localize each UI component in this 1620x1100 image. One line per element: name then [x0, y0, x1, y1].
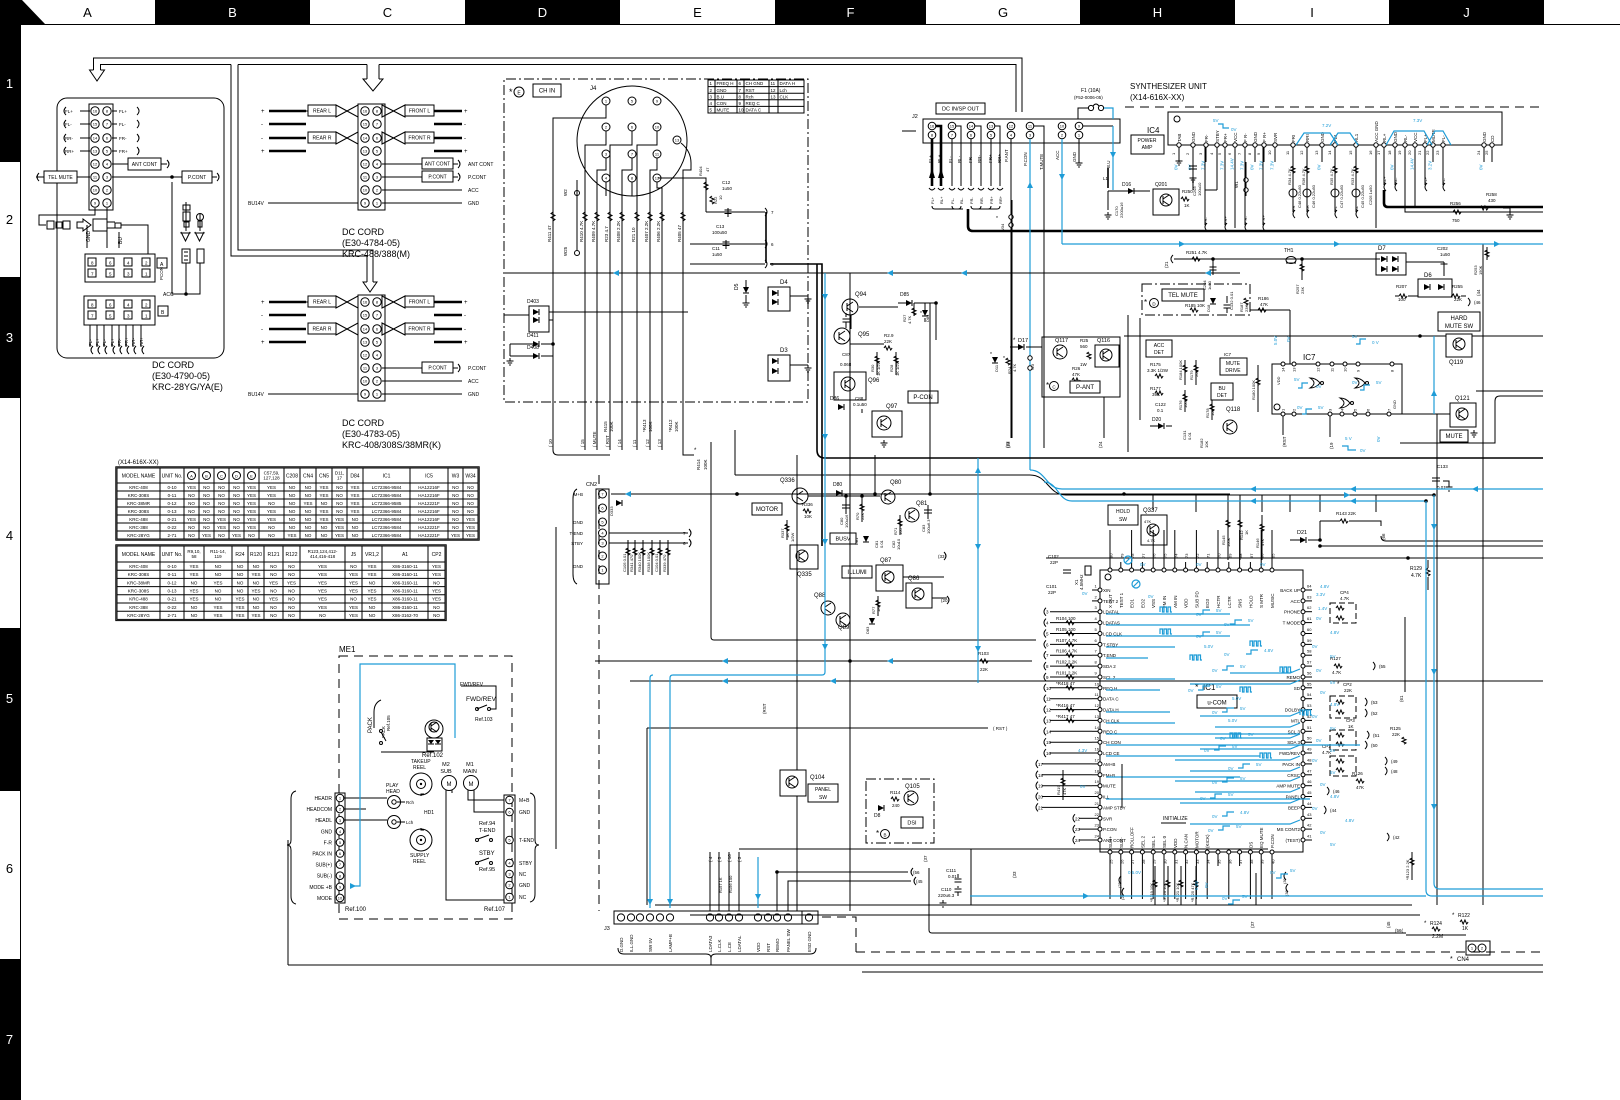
svg-text:LAMP+B: LAMP+B: [668, 934, 673, 952]
svg-text:16: 16: [1046, 751, 1052, 756]
svg-text:16: 16: [1368, 150, 1373, 155]
brace under J3: [618, 948, 816, 958]
C104: [659, 540, 661, 575]
svg-text:GND: GND: [1482, 131, 1487, 142]
svg-text:(E30-4790-05): (E30-4790-05): [152, 371, 210, 381]
svg-text:Q116: Q116: [1097, 338, 1110, 344]
svg-text:79: 79: [1119, 553, 1124, 558]
svg-text:REAR L: REAR L: [313, 300, 331, 306]
P-CON label: [908, 391, 938, 403]
resistor R406: [661, 196, 663, 450]
svg-text:58: 58: [1307, 649, 1312, 654]
svg-text:(44: (44: [1330, 808, 1337, 813]
svg-text:M2: M2: [442, 762, 450, 768]
svg-text:63: 63: [1307, 594, 1312, 599]
svg-text:W1: W1: [1234, 181, 1239, 188]
svg-text:LC72366-9584: LC72366-9584: [372, 533, 402, 538]
P.CONT label: [112, 176, 182, 178]
svg-text:PANEL: PANEL: [815, 787, 831, 793]
J4 pin lookup table: [708, 80, 804, 113]
diode D83: [869, 618, 875, 624]
svg-text:NO: NO: [321, 501, 328, 506]
pin 9/1: [91, 199, 99, 207]
pin IC1-13 CH CLK: [1098, 718, 1102, 722]
svg-text:20: 20: [1038, 795, 1044, 800]
wire y475: [735, 474, 1030, 476]
svg-text:R105 100: R105 100: [1056, 627, 1076, 632]
pin ME1-9 MODE +B: [336, 883, 344, 891]
svg-text:75: 75: [1163, 553, 1168, 558]
svg-text:C105 0.01: C105 0.01: [622, 553, 627, 572]
svg-text:12: 12: [363, 353, 368, 358]
svg-text:220u6.3: 220u6.3: [938, 893, 955, 898]
svg-text:0V: 0V: [1196, 634, 1202, 639]
capacitor C48: [1289, 189, 1297, 197]
pin IC4-12 RRI: [1305, 143, 1309, 147]
svg-text:NO: NO: [191, 580, 198, 585]
svg-text:R104 100: R104 100: [1056, 616, 1076, 621]
svg-text:BEEP: BEEP: [1288, 805, 1300, 810]
svg-text:1.4V: 1.4V: [1318, 606, 1327, 611]
svg-text:10: 10: [338, 896, 343, 901]
DSI label: [901, 817, 923, 828]
svg-text:0V: 0V: [1222, 896, 1228, 901]
svg-text:25: 25: [1484, 150, 1489, 155]
svg-text:FR-: FR-: [1204, 134, 1209, 142]
svg-text:R23 4.7: R23 4.7: [604, 226, 609, 242]
svg-text:(53: (53: [1371, 700, 1378, 705]
svg-text:YES: YES: [318, 597, 327, 602]
cyan waveform pulses: [1160, 607, 1172, 612]
connector CN4: [1466, 941, 1490, 955]
svg-text:22: 22: [1425, 150, 1430, 155]
svg-text:A: A: [83, 5, 92, 20]
HARD MUTE SW: [1438, 312, 1480, 331]
node 4: [1044, 619, 1046, 627]
svg-text:C133: C133: [1437, 464, 1448, 469]
svg-text:PACK IN: PACK IN: [1282, 762, 1300, 767]
svg-text:*R417 47: *R417 47: [1056, 714, 1075, 719]
pin IC1-74 AM IN: [1173, 568, 1177, 572]
svg-text:RST: RST: [746, 88, 755, 93]
resistor R409: [596, 196, 598, 450]
svg-text:18: 18: [1387, 150, 1392, 155]
pin IC1-64 BACK UP: [1301, 588, 1305, 592]
svg-text:EO2: EO2: [1140, 598, 1145, 608]
svg-text:Ref.94: Ref.94: [479, 821, 495, 827]
svg-text:FWD/REV: FWD/REV: [460, 682, 484, 688]
svg-text:P.ANT: P.ANT: [1004, 149, 1009, 162]
svg-text:NO: NO: [203, 509, 210, 514]
svg-text:B: B: [883, 833, 886, 838]
svg-text:CP4: CP4: [1340, 590, 1349, 595]
svg-text:1K 1/2W: 1K 1/2W: [895, 360, 900, 376]
svg-text:YES: YES: [432, 589, 441, 594]
svg-text:10: 10: [1343, 367, 1348, 372]
svg-text:BUSV: BUSV: [836, 537, 851, 543]
svg-text:43: 43: [1307, 812, 1312, 817]
pin IC1-3 LDATAL: [1098, 610, 1102, 614]
svg-text:R120: R120: [250, 552, 262, 558]
svg-text:13: 13: [989, 124, 994, 129]
pin J4-13: [673, 136, 681, 144]
svg-text:24: 24: [1095, 834, 1100, 839]
svg-text:FL+: FL+: [930, 196, 935, 204]
node FR+ right: [112, 150, 117, 152]
wire y661: [595, 660, 1032, 662]
svg-text:Ref.95: Ref.95: [479, 867, 495, 873]
svg-text:F R+: F R+: [1261, 215, 1266, 224]
svg-text:GND: GND: [573, 520, 584, 525]
bottom area wires: [646, 728, 648, 905]
pin ME1-10 MODE: [336, 894, 344, 902]
wire FL-: [89, 325, 91, 347]
svg-text:(20: (20: [941, 598, 948, 603]
svg-text:LC72366-9584: LC72366-9584: [372, 517, 402, 522]
op-amp IC4 body: [1168, 112, 1502, 145]
svg-text:R121: R121: [268, 552, 280, 558]
svg-text:7.2V: 7.2V: [1322, 123, 1331, 128]
svg-text:16: 16: [363, 109, 368, 114]
svg-text:750: 750: [1452, 218, 1460, 223]
svg-text:(55: (55: [1379, 664, 1386, 669]
svg-text:1u50: 1u50: [1440, 252, 1451, 257]
svg-text:D86: D86: [830, 396, 839, 402]
svg-text:0-21: 0-21: [167, 597, 177, 602]
svg-text:22K: 22K: [1392, 732, 1400, 737]
pin J2-2: [1058, 131, 1066, 139]
svg-text:127,128: 127,128: [263, 476, 280, 481]
pin IC1-43: [1301, 816, 1305, 820]
wire pin9 loop to plug: [39, 208, 95, 225]
svg-text:(F52-0006-05): (F52-0006-05): [1074, 95, 1103, 100]
svg-text:0V: 0V: [1224, 652, 1230, 657]
pin J3-0: [617, 914, 624, 921]
svg-text:R24: R24: [235, 552, 244, 558]
svg-text:51: 51: [1307, 725, 1312, 730]
svg-text:14: 14: [1095, 725, 1100, 730]
svg-text:5V: 5V: [1330, 748, 1336, 753]
svg-text:FL-: FL-: [88, 339, 93, 346]
R404 47 / R22 10: [658, 178, 706, 212]
resistor R105: [1066, 631, 1074, 635]
svg-text:HOLD: HOLD: [1116, 509, 1130, 515]
svg-text:Q117: Q117: [1055, 338, 1068, 344]
nodes 33 20: [944, 552, 946, 560]
wire y558: [1046, 557, 1543, 559]
diode D333: [616, 500, 622, 506]
svg-text:(X14-616X-XX): (X14-616X-XX): [118, 460, 159, 466]
svg-text:1K 1/2W: 1K 1/2W: [876, 360, 881, 376]
wire RR+: [140, 325, 142, 347]
svg-text:DC IN/SP OUT: DC IN/SP OUT: [942, 107, 980, 113]
svg-text:GND: GND: [1392, 400, 1397, 409]
svg-text:5V: 5V: [1248, 618, 1254, 623]
svg-text:NO: NO: [237, 564, 244, 569]
svg-text:0-13: 0-13: [167, 589, 177, 594]
svg-text:NO: NO: [350, 597, 357, 602]
svg-text:D83: D83: [865, 626, 870, 634]
wires pcon: [859, 306, 898, 308]
pin IC1-30 SEL 0: [1162, 850, 1166, 854]
svg-text:100K: 100K: [703, 459, 708, 470]
pin IC1-54: [1301, 697, 1305, 701]
pin J3-12: [773, 914, 780, 921]
MOTOR label: [752, 503, 782, 515]
svg-text:0V: 0V: [1316, 668, 1322, 673]
svg-text:L.CE: L.CE: [727, 942, 732, 952]
resistor R187 23K: [1244, 298, 1248, 305]
svg-text:17: 17: [1038, 762, 1044, 767]
svg-text:0V: 0V: [1224, 622, 1230, 627]
wires motor cluster: [611, 493, 792, 495]
svg-text:0V: 0V: [1200, 796, 1206, 801]
svg-text:NO: NO: [288, 605, 295, 610]
svg-text:10: 10: [1060, 124, 1065, 129]
svg-text:NO: NO: [237, 572, 244, 577]
svg-text:7: 7: [6, 1032, 13, 1047]
svg-text:NO: NO: [305, 533, 312, 538]
svg-text:( 12: ( 12: [645, 439, 650, 447]
svg-text:D8: D8: [874, 813, 881, 819]
svg-text:LC72366-9584: LC72366-9584: [372, 509, 402, 514]
svg-text:X86-3160-11: X86-3160-11: [392, 605, 418, 610]
pin IC1-18 FM+B: [1098, 773, 1102, 777]
svg-text:0V: 0V: [1320, 830, 1326, 835]
svg-text:-: -: [464, 313, 466, 319]
svg-text:NO: NO: [433, 580, 440, 585]
svg-text:Q337: Q337: [1143, 508, 1158, 514]
svg-text:YES: YES: [466, 525, 475, 530]
wire corner right: [1400, 396, 1543, 443]
svg-text:34: 34: [1206, 859, 1211, 864]
pin IC4-9 F R+: [1262, 143, 1266, 147]
svg-text:Ref.105: Ref.105: [386, 715, 391, 731]
pin J3-3: [646, 914, 653, 921]
svg-text:0V: 0V: [1220, 736, 1226, 741]
svg-text:10: 10: [718, 195, 723, 200]
svg-text:YES: YES: [318, 589, 327, 594]
svg-text:DC CORD: DC CORD: [342, 227, 384, 237]
pin IC4-19 RL-: [1403, 143, 1407, 147]
capacitor C132: [1224, 296, 1231, 313]
svg-text:RR-: RR-: [977, 155, 982, 163]
svg-text:MUTE: MUTE: [1103, 784, 1116, 789]
svg-text:NO: NO: [188, 533, 195, 538]
svg-text:74: 74: [1173, 553, 1178, 558]
svg-text:NO: NO: [467, 493, 474, 498]
svg-text:FL: FL: [1333, 206, 1338, 211]
svg-text:M+B: M+B: [519, 798, 530, 804]
svg-text:(61: (61: [1399, 695, 1404, 702]
svg-text:NO: NO: [237, 589, 244, 594]
svg-text:( RST: ( RST: [605, 435, 610, 447]
svg-text:BU14V: BU14V: [248, 201, 265, 207]
svg-text:NC: NC: [519, 872, 527, 878]
svg-text:YES: YES: [466, 517, 475, 522]
svg-text:(33: (33: [1012, 871, 1017, 878]
resistor R107: [1066, 642, 1074, 646]
capacitor C47: [1331, 189, 1339, 197]
capacitor C80 100u16: [842, 500, 850, 514]
pin IC1-4 LDATAS: [1098, 621, 1102, 625]
svg-text:2: 2: [6, 212, 13, 227]
svg-text:D7: D7: [1378, 246, 1386, 252]
svg-text:D408: D408: [527, 345, 539, 351]
svg-text:NO: NO: [452, 493, 459, 498]
svg-text:FL+: FL+: [1423, 176, 1428, 184]
svg-text:0V: 0V: [1212, 814, 1218, 819]
svg-text:5V: 5V: [1213, 118, 1219, 123]
svg-text:NO: NO: [350, 564, 357, 569]
svg-text:Ref.100: Ref.100: [345, 907, 367, 913]
svg-text:KRC-388: KRC-388: [129, 525, 148, 530]
pin IC1-25 SUB+: [1108, 850, 1112, 854]
pin J3-13: [784, 914, 791, 921]
svg-text:SUB: SUB: [440, 769, 452, 775]
svg-text:Q94: Q94: [855, 292, 867, 298]
svg-text:IC7: IC7: [1303, 353, 1316, 362]
pin 10/2: [91, 186, 99, 194]
svg-text:C87: C87: [842, 352, 851, 357]
svg-text:22K: 22K: [860, 513, 865, 520]
svg-text:10: 10: [1267, 150, 1272, 155]
svg-text:A1: A1: [402, 552, 408, 558]
wire FL+: [111, 325, 113, 347]
svg-text:15: 15: [950, 124, 955, 129]
svg-text:(56(: (56(: [1395, 928, 1404, 933]
svg-text:HA12221F: HA12221F: [418, 525, 440, 530]
svg-text:C46 0.22u50: C46 0.22u50: [1311, 184, 1316, 208]
svg-text:IC1: IC1: [383, 474, 391, 480]
svg-text:28: 28: [1141, 859, 1146, 864]
svg-text:14: 14: [363, 327, 368, 332]
wire x797 panel: [796, 455, 798, 770]
hollow arrow right: [77, 219, 91, 231]
svg-text:0V: 0V: [1204, 882, 1209, 888]
pin J3-9: [735, 914, 742, 921]
R256 750: [1405, 147, 1543, 212]
svg-text:0V: 0V: [1082, 591, 1088, 596]
svg-text:YES: YES: [251, 589, 260, 594]
svg-text:0V: 0V: [1231, 127, 1237, 132]
cyan pin connector lines left: [1106, 613, 1230, 615]
svg-text:5 V: 5 V: [1345, 436, 1352, 441]
svg-text:FR+: FR+: [119, 149, 128, 154]
cyan arrows y661 y681: [722, 658, 728, 664]
pin IC1-29 SEL 1: [1151, 850, 1155, 854]
svg-text:STBY: STBY: [479, 851, 495, 857]
node FR- right: [112, 137, 117, 139]
svg-text:Q96: Q96: [868, 378, 880, 384]
svg-text:3.3K 1/2W: 3.3K 1/2W: [1147, 368, 1169, 373]
svg-text:(42: (42: [1393, 835, 1400, 840]
R341: [634, 540, 636, 575]
svg-text:R103: R103: [978, 651, 989, 656]
driver Ref.102: [425, 720, 443, 738]
svg-text:GND: GND: [519, 883, 531, 889]
svg-text:RL+: RL+: [937, 154, 942, 163]
svg-text:( MUTE: ( MUTE: [592, 432, 597, 448]
BU DET: [1211, 383, 1233, 400]
svg-text:ANT CONT: ANT CONT: [132, 162, 157, 168]
svg-text:GND: GND: [1393, 131, 1398, 142]
svg-text:MAIN: MAIN: [463, 769, 477, 775]
svg-text:D6: D6: [1424, 273, 1432, 279]
pin J4-10: [653, 123, 661, 131]
svg-text:LC72366-9585: LC72366-9585: [372, 501, 402, 506]
svg-text:58: 58: [191, 554, 197, 559]
svg-text:YES: YES: [287, 580, 296, 585]
svg-text:FRONT R: FRONT R: [408, 136, 431, 142]
svg-text:14: 14: [1046, 729, 1052, 734]
pin IC4-4 STBY: [1215, 143, 1219, 147]
svg-text:0V: 0V: [1312, 806, 1318, 811]
svg-text:X86-3160-11: X86-3160-11: [392, 597, 418, 602]
svg-text:B.U: B.U: [1106, 160, 1111, 168]
svg-text:0V: 0V: [1196, 612, 1202, 617]
pin IC4-14 FL1: [1333, 143, 1337, 147]
wire y495: [1030, 475, 1434, 495]
svg-text:Ref.107: Ref.107: [484, 907, 506, 913]
svg-text:FRI: FRI: [1291, 135, 1296, 142]
pin IC1-16 LCD CE: [1098, 751, 1102, 755]
svg-text:NO: NO: [218, 485, 225, 490]
wire x875 x930: [874, 455, 876, 494]
connector B: [84, 296, 155, 325]
svg-text:KRC-28YG/YA(E): KRC-28YG/YA(E): [152, 382, 223, 392]
pin IC1-73 VDD: [1184, 568, 1188, 572]
cyan arrow y494: [625, 491, 631, 497]
svg-text:YES: YES: [432, 564, 441, 569]
nodes 22 23 24: [1073, 814, 1075, 822]
pin IC4-1 TAB: [1177, 143, 1181, 147]
svg-text:Q105: Q105: [905, 784, 920, 790]
svg-text:DOLBY: DOLBY: [1285, 708, 1300, 713]
svg-text:+: +: [261, 300, 265, 306]
svg-text:MUTE: MUTE: [1446, 434, 1463, 440]
svg-text:1u50: 1u50: [712, 252, 723, 257]
svg-text:0V: 0V: [1312, 758, 1318, 763]
svg-text:53: 53: [1307, 703, 1312, 708]
svg-text:14.4V: 14.4V: [1410, 158, 1415, 170]
head Lch: [388, 816, 401, 829]
pin IC4-21 FL+: [1423, 143, 1427, 147]
svg-text:71: 71: [1206, 553, 1211, 558]
wire x850: [849, 273, 851, 911]
pin J2-1: [1075, 131, 1083, 139]
svg-text:REQ C: REQ C: [746, 101, 761, 106]
svg-text:CP2: CP2: [1343, 682, 1352, 687]
svg-text:RL-: RL-: [959, 197, 964, 204]
pin IC1-57: [1301, 664, 1305, 668]
svg-text:5V: 5V: [1294, 377, 1300, 382]
svg-text:RR+: RR+: [139, 337, 144, 346]
pin IC1-23 P.CON: [1098, 827, 1102, 831]
svg-text:CP3: CP3: [1346, 718, 1355, 723]
pin ME1-6 PACK IN: [336, 850, 344, 858]
svg-text:R175: R175: [1150, 362, 1161, 367]
svg-text:MUTE: MUTE: [1226, 361, 1241, 367]
svg-text:FRONT L: FRONT L: [409, 109, 431, 115]
svg-text:2-71: 2-71: [167, 613, 177, 618]
svg-text:5V: 5V: [1242, 894, 1248, 899]
svg-text:5V: 5V: [1256, 762, 1262, 767]
svg-text:EO1: EO1: [1130, 598, 1135, 608]
svg-text:R156 100: R156 100: [728, 875, 733, 893]
pin IC1-27 ROLLOFF: [1130, 850, 1134, 854]
ACC: [382, 380, 462, 382]
